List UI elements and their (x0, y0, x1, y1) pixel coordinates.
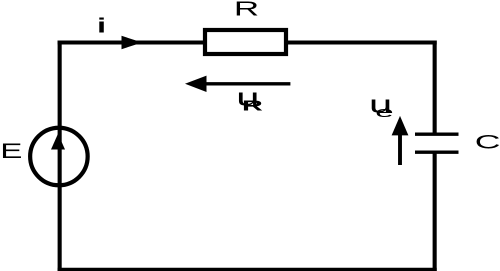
wire left (58, 41, 62, 271)
svg-text:R: R (234, 0, 259, 20)
capacitor C top plate (415, 132, 459, 135)
wire right lower (433, 152, 437, 271)
svg-text:i: i (97, 14, 106, 37)
arrow uR shaft (203, 82, 290, 85)
svg-text:C: C (475, 132, 500, 154)
current arrow i head (122, 36, 143, 49)
svg-text:E: E (0, 139, 22, 163)
source E arrow head (51, 134, 65, 150)
source E circle (30, 128, 88, 186)
svg-text:R: R (242, 97, 263, 113)
wire right upper (433, 41, 437, 135)
wire bottom (58, 268, 437, 271)
arrow uR head (185, 76, 207, 92)
resistor R (205, 30, 286, 54)
svg-text:e: e (375, 104, 393, 120)
arrow uc head (392, 116, 409, 135)
wire top-right segment (286, 41, 437, 45)
arrow uc shaft (398, 134, 402, 165)
capacitor C bottom plate (415, 150, 459, 153)
wire top-left segment (58, 41, 205, 45)
